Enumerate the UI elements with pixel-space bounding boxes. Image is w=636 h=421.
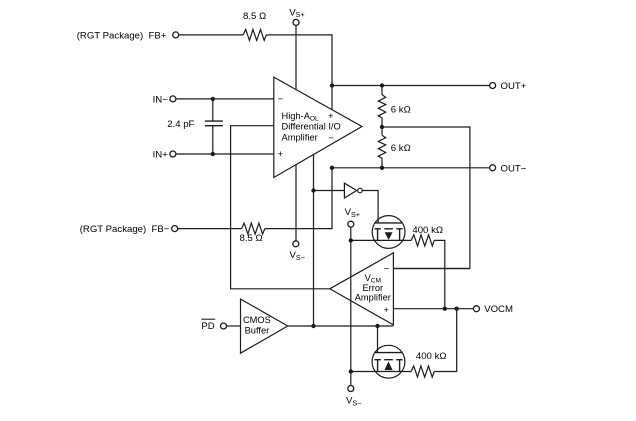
node inverter tee bbox=[311, 188, 315, 192]
svg-text:6 kΩ: 6 kΩ bbox=[391, 143, 411, 154]
node VOCM from 400k lower bbox=[455, 307, 459, 311]
svg-text:IN+: IN+ bbox=[153, 150, 169, 161]
power terminal VS+ mid bbox=[348, 221, 354, 227]
terminal IN+ bbox=[170, 151, 176, 157]
transistor Q1 bbox=[372, 216, 405, 249]
wire Q2 source-drain row bbox=[351, 371, 411, 373]
node 6k midpoint bbox=[380, 125, 384, 129]
op-amp U2 VCM error amplifier bbox=[330, 253, 394, 325]
wire VS+ top to amplifier bbox=[295, 25, 297, 89]
svg-text:(RGT Package) FB−: (RGT Package) FB− bbox=[80, 224, 170, 235]
resistor 8.5 ohm top bbox=[243, 29, 266, 40]
svg-text:+: + bbox=[328, 111, 333, 121]
node buffer to Q2 gate bbox=[375, 324, 379, 328]
node OUT- at 6k bbox=[380, 166, 384, 170]
terminal PD bbox=[221, 323, 227, 329]
svg-text:CMOS: CMOS bbox=[243, 315, 271, 325]
svg-text:Differential I/O: Differential I/O bbox=[282, 122, 341, 132]
svg-text:Buffer: Buffer bbox=[245, 325, 270, 335]
wire FB+ to resistor bbox=[179, 34, 243, 36]
wire Q1 source-drain row bbox=[351, 239, 412, 241]
resistor 8.5 ohm bottom bbox=[242, 223, 265, 234]
node buffer to enable bbox=[311, 324, 315, 328]
svg-text:PD: PD bbox=[201, 321, 214, 332]
terminal IN- bbox=[170, 96, 176, 102]
svg-text:(RGT Package) FB+: (RGT Package) FB+ bbox=[77, 31, 167, 42]
wire OUT- rail bbox=[332, 167, 490, 169]
svg-text:−: − bbox=[328, 133, 333, 143]
svg-text:2.4 pF: 2.4 pF bbox=[167, 119, 194, 130]
wire IN- to amplifier bbox=[176, 98, 274, 100]
wire inverter input bbox=[314, 190, 345, 192]
svg-text:6 kΩ: 6 kΩ bbox=[391, 104, 411, 115]
node IN+ cap tap bbox=[211, 152, 215, 156]
wire error amp plus input to VOCM bbox=[393, 308, 473, 310]
power terminal VS+ top bbox=[293, 19, 299, 25]
resistor 6 kOhm upper bbox=[378, 95, 385, 118]
resistor 400 kOhm upper bbox=[411, 235, 434, 246]
svg-text:Amplifier: Amplifier bbox=[355, 293, 391, 303]
power terminal VS- under amplifier bbox=[293, 241, 299, 247]
svg-text:Error: Error bbox=[362, 283, 383, 293]
wire OUT- to FB- corner bbox=[265, 168, 332, 229]
inverter bbox=[344, 183, 356, 198]
wire VS+ mid down bbox=[350, 227, 352, 240]
wire VS- under amplifier bbox=[295, 165, 297, 241]
terminal VOCM bbox=[473, 306, 479, 312]
svg-text:8.5 Ω: 8.5 Ω bbox=[243, 11, 266, 22]
wire 400k lower to VOCM node bbox=[434, 309, 457, 372]
node OUT+ at 6k bbox=[380, 83, 384, 87]
op-amp U3 CMOS buffer bbox=[241, 299, 288, 353]
wire common-mode feedback tap bbox=[382, 127, 470, 269]
svg-text:8.5 Ω: 8.5 Ω bbox=[240, 233, 263, 244]
wire Q2 gate bbox=[377, 326, 379, 353]
resistor 400 kOhm lower bbox=[411, 366, 434, 377]
wire resistor to FB- terminal bbox=[178, 228, 242, 230]
svg-text:Amplifier: Amplifier bbox=[282, 132, 318, 142]
wire 400k upper to VOCM node bbox=[434, 240, 445, 308]
wire FB+ resistor to OUT+ drop corner bbox=[266, 35, 332, 110]
node IN- cap tap bbox=[211, 97, 215, 101]
label inside main amplifier bbox=[278, 94, 341, 159]
wire enable line from amplifier to buffer output bbox=[313, 155, 315, 326]
terminal FB+ bbox=[173, 32, 179, 38]
overline of PD bbox=[201, 318, 215, 320]
wire buffer output bbox=[288, 325, 394, 327]
svg-text:OUT−: OUT− bbox=[501, 163, 527, 174]
wire inverter output to Q1 gate bbox=[362, 191, 378, 223]
wire VS- bottom bbox=[350, 372, 352, 386]
wire VS+/VS- rail through error amplifier bbox=[350, 240, 352, 371]
label inside CMOS buffer bbox=[243, 315, 271, 335]
terminal OUT+ bbox=[490, 83, 496, 89]
capacitor 2.4 pF bbox=[212, 99, 214, 121]
svg-text:IN−: IN− bbox=[153, 94, 169, 105]
wire OUT+ rail bbox=[332, 85, 490, 87]
svg-text:400 kΩ: 400 kΩ bbox=[416, 351, 447, 362]
resistor 6 kOhm lower bbox=[378, 135, 385, 158]
node VOCM from 400k upper bbox=[443, 307, 447, 311]
svg-text:400 kΩ: 400 kΩ bbox=[412, 225, 443, 236]
op-amp U1 High-AOL Differential I/O Amplifier bbox=[274, 77, 362, 177]
svg-text:−: − bbox=[278, 94, 283, 104]
wire 6k upper leads bbox=[381, 86, 383, 95]
wire PD to buffer bbox=[227, 325, 241, 327]
svg-text:OUT+: OUT+ bbox=[501, 81, 527, 92]
transistor Q2 bbox=[372, 345, 405, 378]
node OUT+ at amp drop bbox=[330, 83, 334, 87]
terminal OUT- bbox=[490, 165, 496, 171]
power terminal VS- bottom bbox=[348, 386, 354, 392]
terminal FB- bbox=[172, 226, 178, 232]
wire IN+ to amplifier bbox=[176, 153, 274, 155]
node VS- Q2 bbox=[349, 369, 353, 373]
wire error amp output loop to main amp bbox=[231, 126, 330, 289]
svg-text:VOCM: VOCM bbox=[484, 304, 513, 315]
svg-text:+: + bbox=[278, 149, 283, 159]
node OUT- at amp drop bbox=[330, 166, 334, 170]
label inside error amplifier bbox=[355, 264, 391, 315]
wire error amp minus input bbox=[393, 268, 470, 270]
svg-text:+: + bbox=[384, 305, 389, 315]
svg-text:−: − bbox=[384, 264, 389, 274]
node VS+ Q1 bbox=[349, 238, 353, 242]
